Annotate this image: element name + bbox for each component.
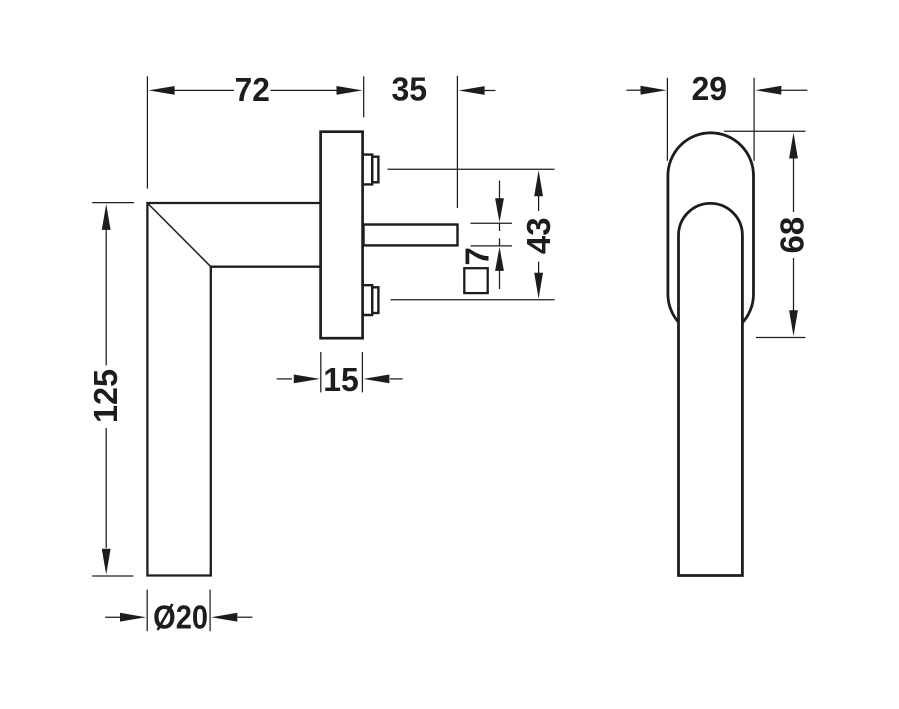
svg-text:68: 68 [773,217,810,254]
svg-text:15: 15 [323,361,359,398]
svg-text:43: 43 [520,217,557,254]
svg-text:35: 35 [391,71,427,108]
svg-text:29: 29 [691,70,727,107]
svg-text:7: 7 [458,247,495,265]
svg-text:O20: O20 [153,599,208,636]
svg-text:125: 125 [87,369,124,423]
svg-text:72: 72 [235,71,270,108]
